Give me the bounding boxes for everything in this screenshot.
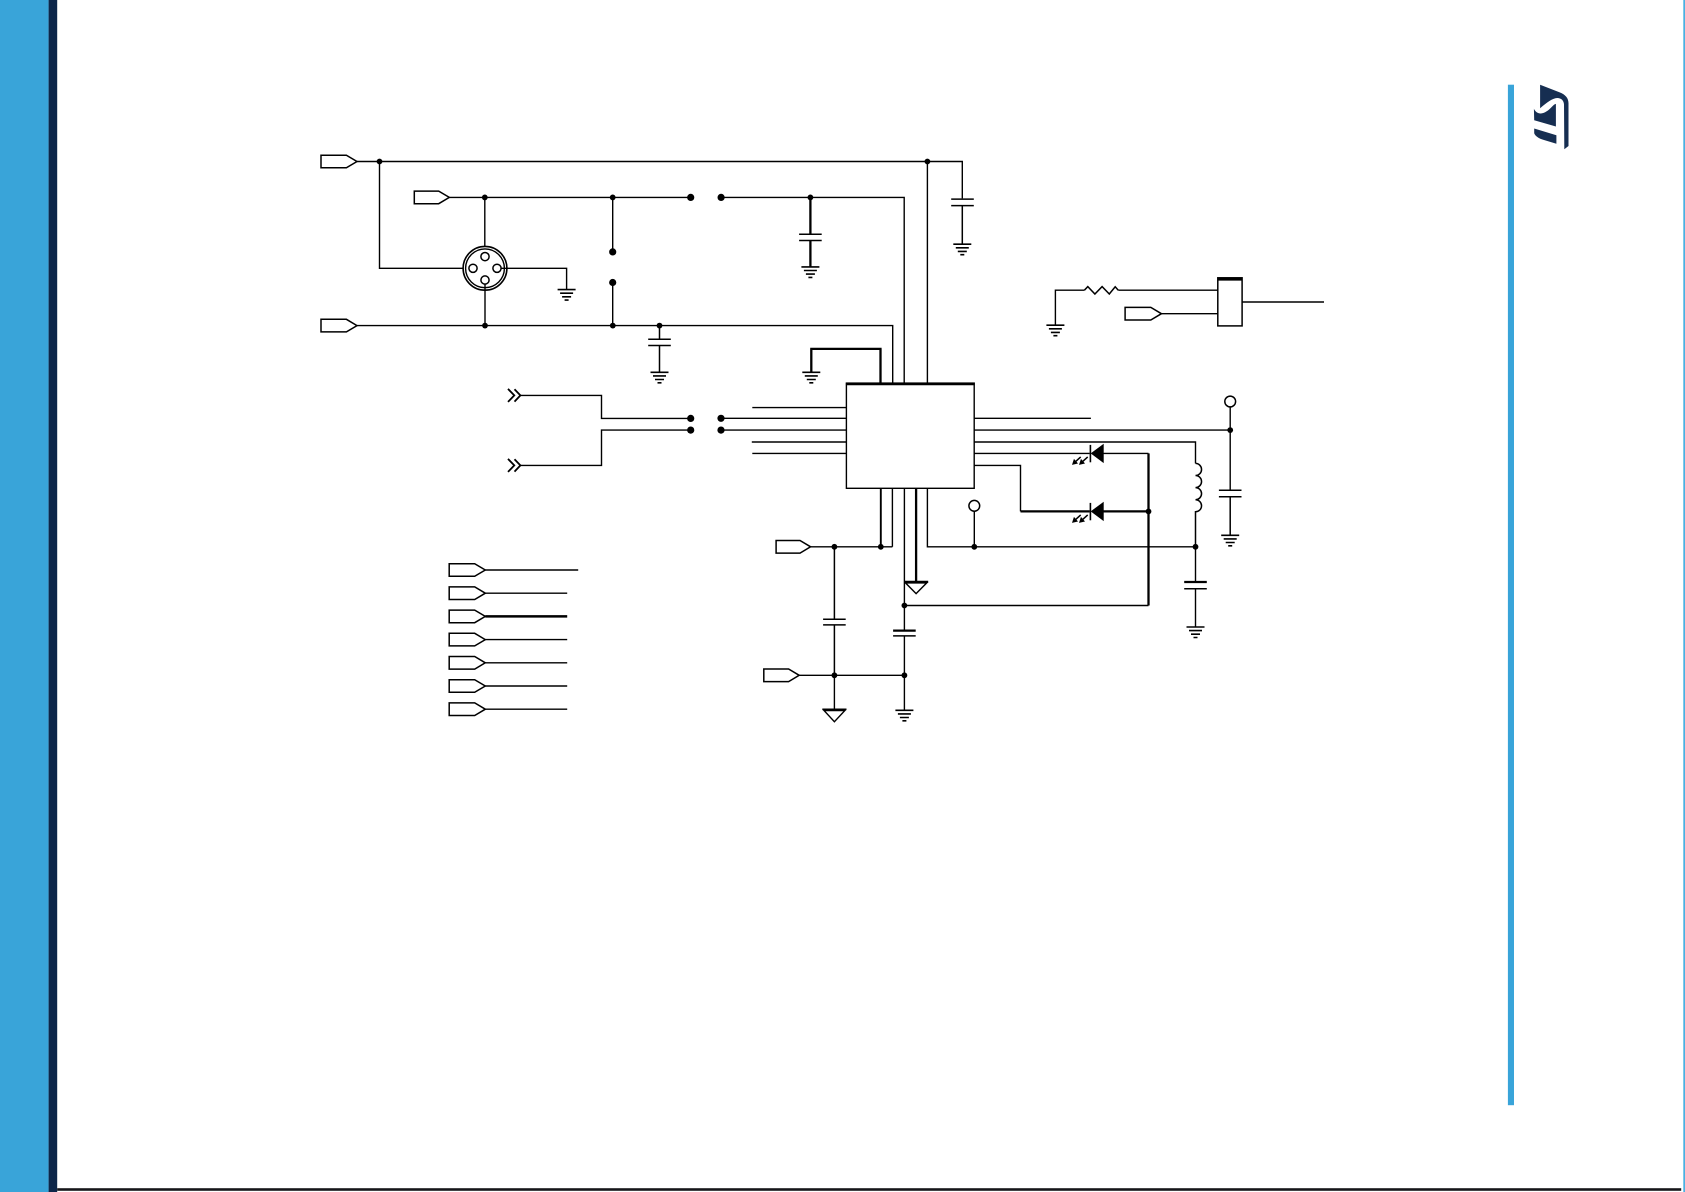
wire IC bottom pin 4 thick — [915, 488, 917, 581]
capacitor C3 — [648, 326, 671, 373]
crystal X1 — [1218, 278, 1242, 326]
wire IC bottom pin 1 — [880, 488, 882, 547]
chevron port CH2 — [508, 459, 520, 472]
wire IC right pin 2 — [974, 429, 1230, 431]
wire — [485, 569, 578, 571]
wire thick — [485, 615, 567, 618]
capacitor C7 — [893, 631, 916, 711]
wire IC right pin 5 — [974, 465, 1020, 511]
ground G3 — [558, 290, 576, 301]
net tag T2 — [414, 191, 449, 204]
ground G1 — [953, 244, 971, 255]
wire thick — [1147, 453, 1149, 605]
LED D1 — [1073, 445, 1103, 464]
net tag T7 — [449, 564, 485, 577]
net tag T1 — [321, 155, 357, 168]
LED D2 — [1073, 503, 1103, 522]
ground flag T2 — [822, 709, 846, 721]
IC U1 — [846, 383, 975, 488]
wire IC right pin 1 — [974, 417, 1091, 419]
net tag T3 — [321, 319, 357, 332]
wire — [484, 197, 486, 253]
net tag T13 — [449, 703, 485, 716]
wire IC left pin 2 — [721, 417, 846, 419]
wire — [520, 430, 690, 465]
net tag T9 — [449, 610, 485, 623]
wire — [485, 708, 567, 710]
wire IC bottom pin 3 — [903, 488, 905, 630]
connector pair dots — [687, 194, 694, 201]
resistor R1 — [1055, 287, 1217, 326]
net tag T12 — [449, 680, 485, 693]
ground G5 — [802, 372, 820, 383]
wire — [799, 674, 904, 676]
ground flag T1 — [904, 582, 928, 594]
wire — [380, 162, 471, 269]
capacitor C6 — [823, 547, 846, 676]
wire — [721, 197, 904, 383]
wire IC bottom pin 2 — [891, 488, 893, 547]
wire IC right pin 3 — [974, 442, 1195, 463]
wire — [1242, 301, 1324, 303]
wire — [485, 685, 567, 687]
wire — [449, 196, 690, 198]
net tag T10 — [449, 633, 485, 646]
wire IC left pin 4 — [752, 441, 847, 443]
ground G9 — [1046, 325, 1064, 336]
net tag T5 — [764, 669, 799, 682]
wire — [811, 546, 893, 548]
ground G2 — [801, 267, 819, 278]
net tag T6 — [1125, 307, 1161, 320]
wire — [485, 662, 567, 664]
ground G6 — [1221, 535, 1239, 546]
test point TP2 — [1225, 396, 1236, 490]
wire — [501, 268, 567, 289]
wire — [485, 639, 567, 641]
junction dots — [377, 159, 383, 165]
chevron port CH1 — [508, 389, 520, 402]
wire — [833, 675, 835, 709]
ground G4 — [651, 372, 669, 383]
wire — [485, 592, 567, 594]
wire thick bus — [810, 349, 881, 384]
net tag T4 — [776, 541, 811, 554]
ground G8 — [895, 710, 913, 721]
connector J1 — [463, 246, 507, 290]
wire IC right pin 4 — [974, 452, 1089, 454]
capacitor C5 — [1184, 547, 1207, 627]
wire — [357, 326, 893, 384]
net tag T8 — [449, 587, 485, 600]
wire IC bottom pin 5 — [927, 488, 1195, 547]
wire IC left pin 1 — [752, 407, 846, 409]
capacitor C2 — [799, 197, 822, 267]
wire IC left pin 3 — [721, 429, 846, 431]
test point TP1 — [969, 500, 980, 546]
wire — [1161, 313, 1217, 315]
capacitor C1 — [951, 199, 974, 244]
ST logo — [1534, 85, 1569, 150]
inductor L1 — [1196, 463, 1202, 546]
wire — [484, 284, 486, 326]
wire — [1103, 452, 1148, 454]
ground G7 — [1187, 627, 1205, 638]
wire — [904, 605, 1148, 607]
net tag T11 — [449, 657, 485, 670]
wire — [612, 197, 614, 325]
wire thick — [1021, 510, 1149, 512]
wire IC top pin — [926, 162, 928, 384]
capacitor C4 — [1219, 490, 1242, 535]
wire IC left pin 5 — [752, 452, 846, 454]
wire — [357, 162, 962, 199]
wire — [520, 395, 690, 418]
